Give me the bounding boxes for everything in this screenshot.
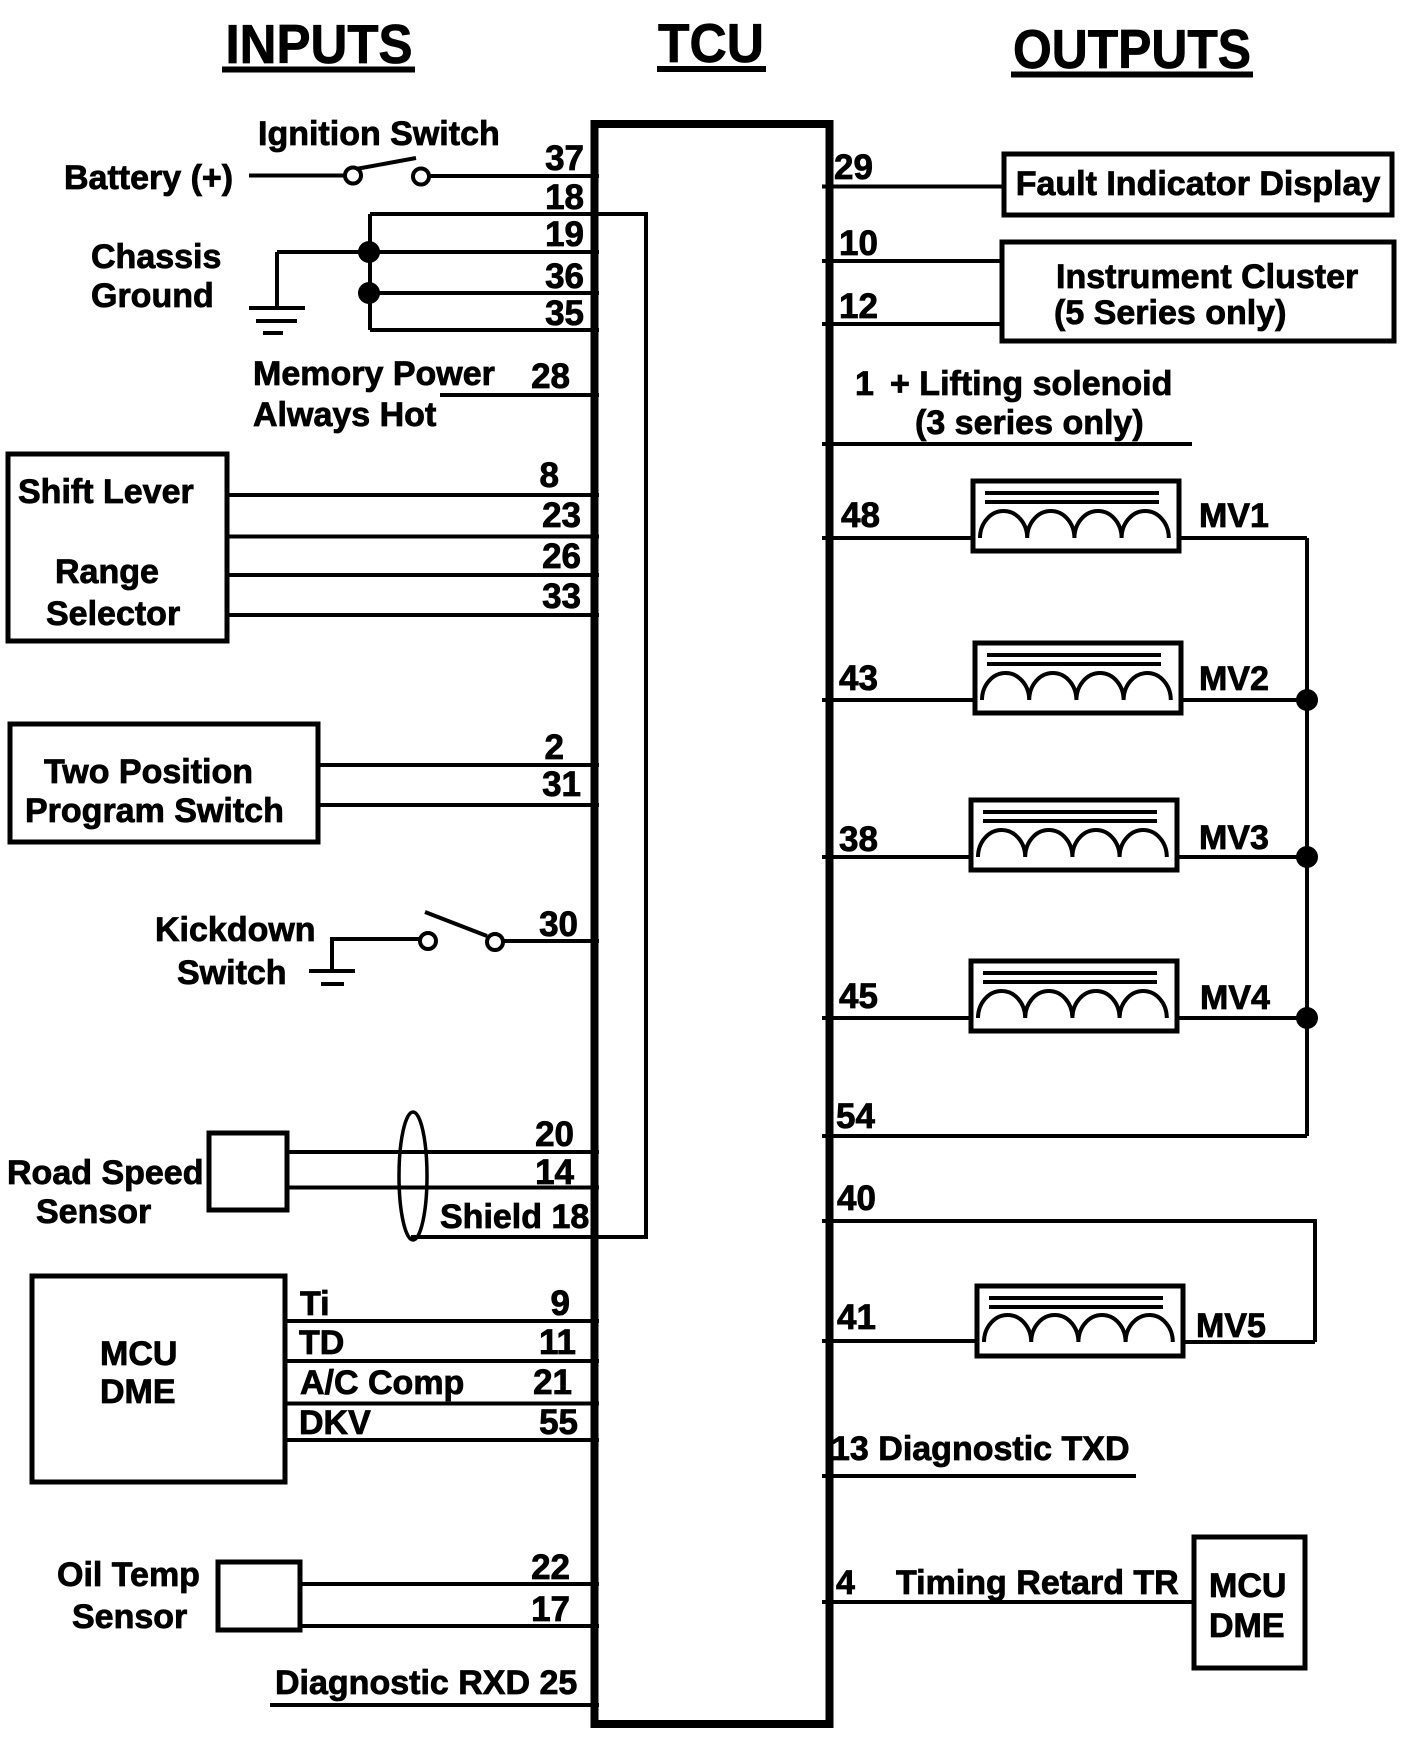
- junction dot A: [358, 241, 380, 263]
- wire pin 28: [440, 393, 599, 397]
- box oil temp sensor: [218, 1562, 300, 1630]
- svg-text:Sensor: Sensor: [36, 1193, 151, 1231]
- svg-text:38: 38: [839, 820, 878, 859]
- svg-text:OUTPUTS: OUTPUTS: [1013, 18, 1251, 80]
- junction dot MV4: [1296, 1007, 1318, 1029]
- solenoid MV4: [971, 961, 1177, 1031]
- wire pin 4: [822, 1600, 1194, 1604]
- svg-text:+ Lifting solenoid: + Lifting solenoid: [890, 365, 1172, 403]
- ground symbol kickdown: [309, 971, 355, 984]
- svg-text:INPUTS: INPUTS: [226, 13, 413, 75]
- label 4 Timing Retard TR: [836, 1564, 1179, 1602]
- vertical wire ground bundle: [368, 214, 372, 330]
- box Shift Lever / Range Selector: [8, 454, 227, 641]
- label 1 + Lifting solenoid: [855, 365, 1172, 442]
- wire MV3 out: [1177, 855, 1307, 859]
- label Chassis Ground: [91, 238, 221, 315]
- svg-text:48: 48: [841, 496, 880, 535]
- wire pin 1: [822, 442, 1192, 446]
- svg-text:A/C Comp: A/C Comp: [300, 1364, 464, 1402]
- svg-text:MCU: MCU: [1209, 1567, 1286, 1605]
- wire pin 29: [822, 185, 1004, 189]
- wire pin 26: [227, 573, 599, 577]
- junction dot MV3: [1296, 846, 1318, 868]
- svg-text:Shift Lever: Shift Lever: [18, 473, 194, 511]
- box MCU DME left: [32, 1276, 285, 1482]
- svg-text:41: 41: [837, 1298, 876, 1337]
- svg-text:Ground: Ground: [91, 277, 214, 315]
- wire pin 45: [822, 1016, 971, 1020]
- svg-text:1: 1: [855, 365, 874, 403]
- svg-text:Program Switch: Program Switch: [25, 792, 284, 830]
- svg-text:MV2: MV2: [1199, 660, 1269, 698]
- svg-text:Ti: Ti: [300, 1285, 330, 1323]
- wire pin 31: [318, 803, 599, 807]
- box Fault Indicator Display: [1004, 154, 1392, 215]
- svg-text:Road Speed: Road Speed: [7, 1154, 203, 1192]
- wire pin 35: [370, 328, 599, 332]
- svg-text:Oil Temp: Oil Temp: [57, 1556, 200, 1594]
- shield ellipse: [399, 1112, 427, 1240]
- wire A/C Comp pin 21: [285, 1402, 599, 1406]
- svg-text:MV3: MV3: [1199, 819, 1269, 857]
- svg-text:DKV: DKV: [299, 1404, 371, 1442]
- box MCU DME right: [1194, 1537, 1305, 1668]
- wire pin 10: [822, 259, 1002, 263]
- svg-text:29: 29: [834, 148, 873, 187]
- svg-text:Fault Indicator Display: Fault Indicator Display: [1016, 165, 1381, 203]
- wire pin 19: [277, 250, 599, 254]
- svg-text:(3 series only): (3 series only): [915, 404, 1144, 442]
- svg-text:Range: Range: [55, 553, 159, 591]
- wire pin 20: [287, 1150, 599, 1154]
- svg-text:37: 37: [545, 139, 584, 178]
- solenoid MV3: [971, 800, 1177, 870]
- svg-text:22: 22: [531, 1548, 570, 1587]
- svg-text:13 Diagnostic TXD: 13 Diagnostic TXD: [831, 1430, 1130, 1468]
- wire pin 33: [227, 613, 599, 617]
- wire pin 12: [822, 322, 1002, 326]
- svg-text:4: 4: [836, 1564, 855, 1602]
- ground symbol chassis: [249, 252, 305, 333]
- wire pin 36: [369, 291, 599, 295]
- svg-text:TD: TD: [299, 1324, 344, 1362]
- label Kickdown Switch: [155, 911, 316, 992]
- svg-text:Diagnostic RXD 25: Diagnostic RXD 25: [275, 1664, 577, 1702]
- wire TD pin 11: [285, 1359, 599, 1363]
- wire MV2 out: [1181, 698, 1307, 702]
- wire pin 17: [300, 1624, 599, 1628]
- svg-text:Battery (+): Battery (+): [64, 159, 233, 197]
- wire pin 2: [318, 763, 599, 767]
- svg-text:10: 10: [839, 224, 878, 263]
- svg-text:Kickdown: Kickdown: [155, 911, 316, 949]
- internal shield bus (pin 18 to Shield): [370, 214, 646, 1237]
- svg-text:17: 17: [531, 1590, 570, 1629]
- svg-text:Sensor: Sensor: [72, 1598, 187, 1636]
- switch S1 ignition: [345, 158, 429, 185]
- wire pin 13: [822, 1474, 1136, 1478]
- svg-text:12: 12: [839, 287, 878, 326]
- svg-text:35: 35: [545, 294, 584, 333]
- wire Ti pin 9: [285, 1319, 599, 1323]
- wire pin 48: [822, 536, 973, 540]
- svg-text:Memory Power: Memory Power: [253, 355, 495, 393]
- wire pin 41: [822, 1339, 977, 1343]
- svg-text:Ignition Switch: Ignition Switch: [258, 115, 500, 153]
- wire pin 43: [822, 698, 975, 702]
- label Oil Temp Sensor: [57, 1556, 200, 1636]
- junction dot MV2: [1296, 689, 1318, 711]
- svg-text:Instrument Cluster: Instrument Cluster: [1056, 258, 1358, 296]
- junction dot B: [358, 282, 380, 304]
- svg-text:Always Hot: Always Hot: [253, 396, 436, 434]
- svg-text:DME: DME: [1209, 1607, 1285, 1645]
- svg-text:Two Position: Two Position: [44, 753, 253, 791]
- svg-text:14: 14: [535, 1153, 574, 1192]
- label Memory Power Always Hot: [253, 355, 495, 434]
- svg-text:Shield 18: Shield 18: [440, 1198, 589, 1236]
- wire pin 54: [822, 1134, 1307, 1138]
- svg-text:MCU: MCU: [100, 1335, 177, 1373]
- svg-text:43: 43: [839, 659, 878, 698]
- svg-text:MV4: MV4: [1200, 979, 1270, 1017]
- wire pin 8: [227, 493, 599, 497]
- svg-text:MV5: MV5: [1196, 1307, 1266, 1345]
- svg-text:MV1: MV1: [1199, 497, 1269, 535]
- wire pin 14: [287, 1186, 599, 1190]
- wire MV1 out: [1179, 536, 1307, 540]
- svg-text:45: 45: [839, 977, 878, 1016]
- svg-text:36: 36: [545, 257, 584, 296]
- wire battery to switch: [249, 174, 344, 178]
- wire MV4 out: [1177, 1016, 1307, 1020]
- box Two Position Program Switch: [10, 724, 318, 842]
- svg-text:30: 30: [539, 905, 578, 944]
- wire pin 37: [429, 174, 599, 178]
- box road speed sensor: [209, 1133, 287, 1210]
- title TCU: [657, 12, 766, 74]
- svg-text:11: 11: [539, 1323, 576, 1362]
- svg-text:DME: DME: [100, 1373, 176, 1411]
- bus MV right vertical: [1305, 538, 1309, 1136]
- svg-text:33: 33: [542, 577, 581, 616]
- svg-text:20: 20: [535, 1115, 574, 1154]
- wire pin 40: [822, 1221, 1315, 1342]
- svg-text:9: 9: [551, 1284, 570, 1323]
- switch S2 kickdown: [420, 912, 503, 950]
- svg-text:TCU: TCU: [658, 12, 764, 74]
- svg-text:28: 28: [531, 357, 570, 396]
- svg-text:19: 19: [545, 215, 584, 254]
- svg-text:23: 23: [542, 496, 581, 535]
- wire MV5 out: [1183, 1340, 1315, 1344]
- svg-text:Timing Retard TR: Timing Retard TR: [896, 1564, 1179, 1602]
- svg-text:40: 40: [837, 1179, 876, 1218]
- solenoid MV5: [977, 1286, 1183, 1356]
- solenoid MV1: [973, 481, 1179, 551]
- svg-text:8: 8: [540, 456, 559, 495]
- svg-text:55: 55: [539, 1403, 578, 1442]
- wire pin 38: [822, 855, 971, 859]
- svg-text:26: 26: [542, 537, 581, 576]
- box Instrument Cluster: [1002, 242, 1394, 341]
- wire kickdown stem: [332, 939, 419, 970]
- title OUTPUTS: [1011, 18, 1253, 80]
- svg-text:Chassis: Chassis: [91, 238, 221, 276]
- wire pin 23: [227, 535, 599, 539]
- svg-text:31: 31: [542, 765, 581, 804]
- svg-text:Selector: Selector: [46, 595, 180, 633]
- solenoid MV2: [975, 643, 1181, 713]
- svg-text:Switch: Switch: [177, 954, 287, 992]
- svg-text:21: 21: [533, 1363, 572, 1402]
- svg-text:2: 2: [545, 728, 564, 767]
- svg-text:18: 18: [545, 178, 584, 217]
- svg-text:(5 Series only): (5 Series only): [1054, 294, 1286, 332]
- label Road Speed Sensor: [7, 1154, 203, 1231]
- TCU box U1: [595, 124, 830, 1724]
- title INPUTS: [222, 13, 415, 75]
- wire pin 22: [300, 1582, 599, 1586]
- wire pin 30: [503, 939, 599, 943]
- wire pin 25: [270, 1703, 599, 1707]
- svg-text:54: 54: [836, 1097, 875, 1136]
- wire DKV pin 55: [285, 1438, 599, 1442]
